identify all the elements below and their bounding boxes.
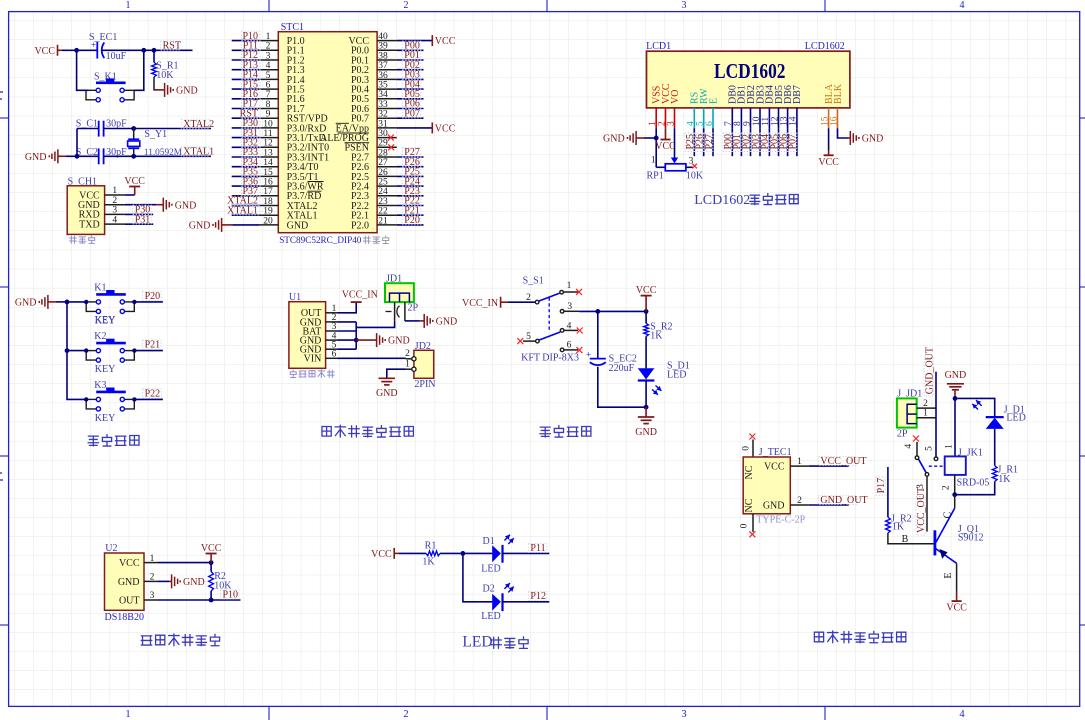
svg-text:OUT: OUT [119, 595, 140, 606]
svg-text:2PIN: 2PIN [414, 379, 435, 390]
net label XTAL2 [181, 119, 210, 128]
RP1 terminal wires [656, 166, 665, 168]
svg-text:GND: GND [763, 500, 785, 511]
relay switch pin4 [913, 436, 919, 442]
pins J_JD1 [917, 407, 936, 409]
svg-text:LCD1602: LCD1602 [714, 59, 786, 83]
svg-text:P2.0: P2.0 [351, 220, 369, 231]
wire VCC to cap [58, 49, 63, 51]
svg-text:1: 1 [945, 444, 955, 449]
svg-text:VCC_OUT: VCC_OUT [820, 456, 866, 467]
net label P10 [221, 590, 240, 599]
svg-text:S_Y1: S_Y1 [144, 129, 167, 140]
svg-text:28: 28 [378, 148, 388, 158]
svg-text:16: 16 [829, 116, 839, 126]
pins U2 1-3 [144, 562, 157, 564]
svg-text:GND: GND [189, 221, 211, 232]
relay switch pin5 [934, 457, 938, 461]
svg-text:E: E [708, 98, 719, 104]
svg-text:P11: P11 [530, 543, 545, 554]
svg-text:32: 32 [378, 110, 388, 120]
battery polarity mark [386, 311, 392, 313]
power port VCC (emitter) [956, 591, 958, 601]
svg-text:5: 5 [925, 446, 935, 451]
svg-text:4: 4 [959, 709, 965, 720]
svg-text:VCC: VCC [371, 549, 392, 560]
net label XTAL1 [181, 147, 210, 156]
title charge module [322, 426, 331, 436]
svg-text:+: + [586, 349, 591, 359]
svg-text:2: 2 [526, 293, 531, 303]
svg-text:P27: P27 [704, 134, 715, 150]
S_S1 pin5 [517, 338, 523, 344]
svg-text:P17: P17 [876, 478, 887, 494]
svg-text:KEY: KEY [95, 413, 116, 424]
svg-text:D1: D1 [483, 536, 495, 547]
svg-text:LED: LED [481, 564, 500, 575]
svg-text:VCC: VCC [124, 176, 145, 187]
no-ERC mark TYPE-C top [749, 434, 755, 440]
svg-text:GND: GND [603, 134, 625, 145]
junction crystal bottom [131, 154, 136, 159]
svg-text:1K: 1K [892, 522, 905, 533]
power port VCC (LCD pin2) [665, 128, 667, 139]
relay pin2 wire [954, 475, 956, 495]
resistor J_R2 1K [886, 517, 891, 533]
svg-text:GND: GND [25, 152, 47, 163]
svg-text:29: 29 [378, 139, 388, 149]
power port GND (LCD left) [635, 131, 637, 145]
svg-text:P12: P12 [530, 591, 546, 602]
net label P12 [528, 591, 547, 600]
LED S_D1 [645, 336, 647, 368]
svg-text:B: B [902, 534, 909, 545]
wire K3 left connect [84, 397, 88, 401]
svg-text:GND_OUT: GND_OUT [924, 347, 935, 394]
svg-text:12: 12 [263, 139, 273, 149]
svg-text:9: 9 [742, 121, 752, 126]
wire J_R1 to relay pin2 node [955, 482, 995, 495]
svg-text:VCC: VCC [201, 543, 222, 554]
wire U2 pin3 P10 net [157, 599, 240, 601]
relay dashed link [929, 465, 945, 467]
no-ERC marks pins 30,29 [388, 135, 394, 141]
wire gnd node to J_D1 and relay pin1 [955, 398, 995, 417]
LCD data pin wires P25-P27 P00-P07 [693, 128, 695, 156]
svg-text:VCC: VCC [435, 36, 456, 47]
svg-text:KEY: KEY [95, 315, 116, 326]
svg-text:4: 4 [266, 61, 271, 71]
junction LED node [461, 551, 466, 556]
net label GND_OUT (vertical) [924, 358, 933, 397]
svg-text:GND: GND [118, 577, 140, 588]
svg-text:1: 1 [405, 360, 410, 370]
svg-text:BLK: BLK [833, 83, 844, 104]
svg-text:LCD1602: LCD1602 [694, 193, 750, 208]
earth ground (JD2) [379, 377, 396, 379]
svg-text:GND: GND [287, 220, 309, 231]
wire right leg of S_K1 [134, 50, 144, 90]
svg-text:0: 0 [740, 523, 750, 528]
wire R1 to node [440, 552, 492, 554]
MCU right pins 40-21 [377, 40, 397, 42]
svg-text:DB7: DB7 [792, 85, 803, 104]
junction relay pin2 node [952, 492, 957, 497]
S_S1 pin6 [560, 348, 564, 352]
svg-text:36: 36 [378, 71, 388, 81]
svg-text:1K: 1K [998, 474, 1011, 485]
svg-text:1: 1 [150, 554, 155, 564]
svg-text:3: 3 [150, 591, 155, 601]
wire S_CH1 pin1 to VCC [125, 194, 135, 196]
svg-text:22: 22 [378, 207, 388, 217]
svg-text:3: 3 [266, 51, 271, 61]
svg-text:K3: K3 [94, 380, 106, 391]
svg-text:1: 1 [112, 186, 117, 196]
svg-text:S9012: S9012 [958, 533, 984, 544]
wire K2 to P21 [134, 350, 163, 352]
svg-text:33: 33 [378, 100, 388, 110]
wire S_S1 pin3 to VCC node [579, 310, 646, 312]
power port VCC (S_CH1) [134, 187, 136, 196]
svg-text:30: 30 [378, 129, 388, 139]
resistor J_R1 1K [992, 466, 997, 482]
svg-text:14: 14 [789, 116, 799, 126]
svg-text:K2: K2 [94, 331, 106, 342]
wire XTAL1 net [77, 129, 99, 157]
junction crystal top [131, 126, 136, 131]
svg-text:STC89C52RC_DIP40: STC89C52RC_DIP40 [279, 235, 362, 245]
MCU right net wires and labels [397, 40, 433, 42]
junction relay gnd node [953, 396, 958, 401]
title temperature module [141, 636, 152, 645]
svg-text:17: 17 [263, 187, 273, 197]
svg-text:6: 6 [266, 81, 271, 91]
svg-text:39: 39 [378, 42, 388, 52]
svg-text:6: 6 [705, 121, 715, 126]
LCD pin16 wire to GND [838, 128, 849, 138]
relay switch mover [919, 459, 927, 473]
svg-text:GND: GND [176, 86, 198, 97]
svg-text:XTAL2: XTAL2 [183, 119, 214, 130]
svg-text:VCC: VCC [34, 46, 55, 57]
potentiometer RP1 10K [671, 158, 678, 164]
pins JD1 [394, 302, 396, 322]
svg-text:6: 6 [332, 350, 337, 360]
svg-text:P21: P21 [145, 340, 161, 351]
svg-text:VIN: VIN [304, 354, 322, 365]
svg-text:D2: D2 [483, 584, 495, 595]
svg-text:0: 0 [742, 446, 752, 451]
svg-text:GND: GND [175, 200, 197, 211]
svg-text:P20: P20 [404, 215, 420, 226]
capacitor S_EC2 220uF [597, 311, 599, 358]
svg-text:220uF: 220uF [609, 363, 635, 374]
net label P21 [143, 340, 162, 349]
svg-text:5: 5 [266, 71, 271, 81]
wire cap to RST node [102, 49, 193, 51]
text charge module caption [290, 370, 296, 377]
svg-text:18: 18 [263, 197, 273, 207]
power port VCC (MCU pin40) [431, 35, 433, 46]
wire P31 (S_CH1 pin4) [125, 223, 153, 225]
svg-text:P07: P07 [404, 108, 420, 119]
svg-text:1: 1 [266, 32, 271, 42]
svg-text:2: 2 [266, 42, 271, 52]
svg-text:P20: P20 [145, 291, 161, 302]
svg-text:3: 3 [567, 302, 572, 312]
net label VCC_OUT (vertical) [916, 497, 925, 536]
resistor S_R1 10K [153, 50, 155, 62]
connector J_TEC1 TYPE-C-2P [752, 440, 754, 458]
wire VCC_IN to S_S1 pin2 [508, 301, 535, 303]
wire JD1 pin1 to bus [356, 322, 394, 327]
net label VCC_OUT [818, 456, 857, 465]
wire JD1 pin2 to GND [405, 320, 420, 322]
wire U1 pin6 to JD2 pin2 [338, 357, 406, 359]
svg-text:21: 21 [378, 216, 388, 226]
net label RST [161, 41, 180, 50]
wire left leg of S_K1 [77, 50, 89, 90]
wire K3 to P22 [134, 398, 163, 400]
power port VCC (MCU pin31) [431, 122, 433, 133]
junction R2/OUT [209, 598, 214, 603]
wire J_R2 to base [888, 533, 934, 544]
wire K1 to P20 [134, 301, 163, 303]
net label P20 [143, 291, 162, 300]
junction U1 gnd bus [354, 338, 359, 343]
power port GND (crystal) [57, 149, 59, 163]
net label GND_OUT [818, 495, 857, 504]
left edge partial zone letters [0, 92, 3, 480]
svg-text:3: 3 [682, 0, 687, 11]
svg-text:24: 24 [378, 187, 388, 197]
title key circuit [88, 436, 99, 446]
MCU left pins 1-20 [260, 40, 279, 42]
svg-text:4: 4 [904, 444, 914, 449]
svg-text:P31: P31 [135, 214, 151, 225]
text download port [69, 236, 76, 243]
svg-text:10: 10 [263, 119, 273, 129]
svg-text:19: 19 [263, 207, 273, 217]
svg-text:GND_OUT: GND_OUT [820, 495, 867, 506]
svg-text:2: 2 [797, 496, 802, 506]
svg-text:RST: RST [163, 41, 181, 52]
svg-text:GND: GND [635, 427, 657, 438]
wire P17 net [887, 467, 889, 517]
transistor J_Q1 S9012 [934, 530, 937, 555]
svg-text:31: 31 [378, 119, 388, 129]
resistor R1 1K [426, 551, 440, 556]
wire VCC_OUT [809, 465, 849, 467]
earth ground (power circuit) [645, 407, 647, 417]
svg-text:2P: 2P [897, 428, 908, 439]
svg-text:GND: GND [436, 317, 458, 328]
power port GND (temp) [171, 574, 173, 588]
svg-text:VCC: VCC [655, 141, 676, 152]
svg-text:15: 15 [263, 168, 273, 178]
wire GND_OUT [809, 504, 849, 506]
svg-text:1K: 1K [422, 556, 435, 567]
svg-text:RP1: RP1 [647, 170, 664, 181]
net label P22 [143, 389, 162, 398]
svg-text:13: 13 [263, 148, 273, 158]
wire XTAL2 net [77, 128, 99, 130]
svg-text:27: 27 [378, 158, 388, 168]
junction power node [595, 309, 600, 314]
svg-text:VCC_IN: VCC_IN [342, 290, 378, 301]
power port VCC_IN (U1) [351, 301, 362, 303]
wire GND_OUT vertical [935, 372, 937, 457]
svg-text:2: 2 [404, 0, 409, 11]
S_S1 pin4 [560, 329, 564, 333]
LCD pin3 wire to RP1 wiper [674, 128, 676, 158]
title relay control circuit [814, 632, 823, 642]
power port GND (S_CH1) [162, 198, 164, 212]
power port GND (LCD right) [849, 131, 851, 145]
MCU pin20 GND wire [222, 224, 233, 226]
wire U2 pin2 to GND [157, 580, 169, 582]
svg-text:1K: 1K [650, 331, 663, 342]
svg-text:37: 37 [378, 61, 388, 71]
svg-text:1: 1 [567, 281, 572, 291]
svg-text:40: 40 [378, 32, 388, 42]
power port GND (MCU pin20) [221, 218, 223, 232]
pins S_CH1 1-4 [105, 194, 125, 196]
power port GND (keys) [47, 295, 49, 309]
svg-text:GND: GND [862, 134, 884, 145]
pins J_TEC1 [790, 465, 809, 467]
svg-text:VCC: VCC [764, 462, 785, 473]
svg-text:VO: VO [670, 90, 681, 104]
power port GND (reset) [164, 83, 166, 97]
svg-text:VCC: VCC [119, 558, 140, 569]
wire J_D1 to J_R1 [994, 429, 996, 466]
svg-text:LED: LED [667, 369, 686, 380]
svg-text:2: 2 [403, 709, 408, 720]
svg-text:26: 26 [378, 168, 388, 178]
svg-text:16: 16 [263, 178, 273, 188]
wire K2 left connect [67, 350, 86, 352]
svg-text:25: 25 [378, 178, 388, 188]
svg-text:NC: NC [744, 465, 755, 479]
svg-text:2: 2 [112, 196, 117, 206]
wire P30 (S_CH1 pin3) [125, 213, 153, 215]
LCD pin1 wire to GND [655, 128, 657, 167]
svg-text:34: 34 [378, 90, 388, 100]
svg-text:GND: GND [388, 336, 410, 347]
svg-text:SRD-05: SRD-05 [957, 478, 990, 489]
wire S_R1 to GND [154, 77, 157, 90]
svg-text:+: + [91, 40, 96, 50]
svg-text:4: 4 [567, 321, 572, 331]
resistor R2 10K [210, 563, 212, 572]
wire K1 left connect [67, 301, 86, 303]
svg-text:9: 9 [266, 110, 271, 120]
junction reset-left [74, 48, 79, 53]
svg-text:XTAL1: XTAL1 [227, 205, 258, 216]
svg-text:NC: NC [744, 498, 755, 512]
svg-text:10K: 10K [686, 170, 704, 181]
svg-text:1: 1 [125, 709, 130, 720]
svg-text:1: 1 [797, 457, 802, 467]
svg-text:6: 6 [567, 341, 572, 351]
wire bus to GND [356, 339, 376, 341]
svg-text:2: 2 [405, 349, 410, 359]
svg-text:10K: 10K [156, 70, 174, 81]
svg-text:VCC: VCC [818, 157, 839, 168]
wire VCC to R1 [399, 552, 426, 554]
S_S1 pin3 [560, 310, 564, 314]
MCU chinese caption [363, 236, 370, 243]
svg-text:GND: GND [945, 370, 967, 381]
wire U2 pin1 to VCC [157, 562, 211, 564]
pins U1 1-6 [326, 312, 338, 314]
svg-text:GND: GND [376, 388, 398, 399]
svg-text:LED: LED [481, 611, 500, 622]
svg-text:VCC_OUT: VCC_OUT [916, 487, 927, 533]
svg-text:8: 8 [266, 100, 271, 110]
power port GND (JD1) [423, 314, 425, 328]
svg-text:TYPE-C-2P: TYPE-C-2P [756, 514, 805, 525]
svg-text:11: 11 [263, 129, 272, 139]
svg-text:3: 3 [666, 121, 676, 126]
junction LCD pin1/GND [654, 136, 659, 141]
net label P11 [528, 543, 547, 552]
svg-text:S_S1: S_S1 [523, 276, 544, 287]
relay common wire VCC_OUT [926, 477, 928, 532]
power port VCC (reset) [57, 45, 59, 56]
svg-text:10uF: 10uF [106, 51, 127, 62]
net label P17 (vertical) [876, 477, 885, 496]
svg-text:P07: P07 [788, 134, 799, 150]
svg-text:KFT DIP-8X3: KFT DIP-8X3 [521, 353, 579, 364]
wire JD2 pin1 to GND [387, 369, 406, 378]
resistor S_R2 1K [645, 311, 647, 323]
J_TEC1 bottom pin [752, 514, 754, 532]
power port VCC_IN (switch) [500, 297, 502, 308]
svg-text:1: 1 [126, 0, 131, 11]
svg-text:C: C [943, 511, 954, 518]
svg-text:4: 4 [112, 215, 117, 225]
svg-text:14: 14 [263, 158, 273, 168]
power port VCC (LED circuit) [393, 548, 395, 559]
svg-text:5: 5 [526, 332, 531, 342]
net label P30 [133, 205, 152, 214]
svg-text:3: 3 [681, 709, 686, 720]
svg-text:LED: LED [1006, 413, 1025, 424]
wire D2 to P12 [502, 601, 549, 603]
svg-text:K1: K1 [94, 283, 106, 294]
svg-text:P22: P22 [145, 388, 161, 399]
emitter wire to VCC [956, 563, 958, 591]
power port GND (U1 bus) [376, 333, 378, 347]
svg-text:P10: P10 [223, 589, 239, 600]
LCD pin15 wire to VCC [828, 128, 830, 150]
svg-text:VCC: VCC [946, 603, 967, 614]
branch wire to D2 [463, 553, 493, 601]
svg-text:38: 38 [378, 51, 388, 61]
svg-text:2: 2 [150, 573, 155, 583]
svg-text:23: 23 [378, 197, 388, 207]
net label P31 [133, 215, 152, 224]
LED J_D1 [972, 404, 978, 410]
svg-text:E: E [943, 572, 954, 578]
wire U1 pin1 to VCC_IN [338, 302, 357, 313]
junction gnd rail [644, 405, 649, 410]
svg-text:KEY: KEY [95, 364, 116, 375]
S_S1 dashed link [548, 298, 550, 332]
